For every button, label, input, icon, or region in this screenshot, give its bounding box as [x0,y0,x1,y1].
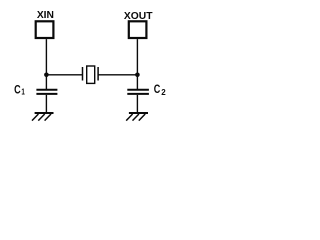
node B junction dot [135,73,140,78]
wire XOUT pad to node B [136,39,138,89]
svg-text:XIN: XIN [37,10,54,21]
node A junction dot [44,73,49,78]
ground (left) [32,113,54,121]
pin pad XIN [36,21,54,38]
capacitor C2 top plate [127,89,149,91]
capacitor C2 bottom plate [127,93,149,95]
crystal Y1 body [87,66,95,83]
capacitor C1 top plate [36,89,57,91]
wire crystal to node B [98,74,137,76]
capacitor C1 bottom plate [36,93,57,95]
svg-text:1: 1 [21,89,25,97]
svg-text:C: C [14,84,21,96]
wire XIN pad to node A [45,39,47,89]
svg-text:C: C [154,84,161,96]
wire C2 to ground [136,95,138,113]
wire node A to crystal [46,74,82,76]
pin pad XOUT [129,21,147,38]
ground (right) [126,113,148,121]
svg-text:2: 2 [161,88,166,97]
wire C1 to ground [45,95,47,113]
crystal Y1 left plate [82,67,84,81]
crystal Y1 right plate [97,67,99,81]
